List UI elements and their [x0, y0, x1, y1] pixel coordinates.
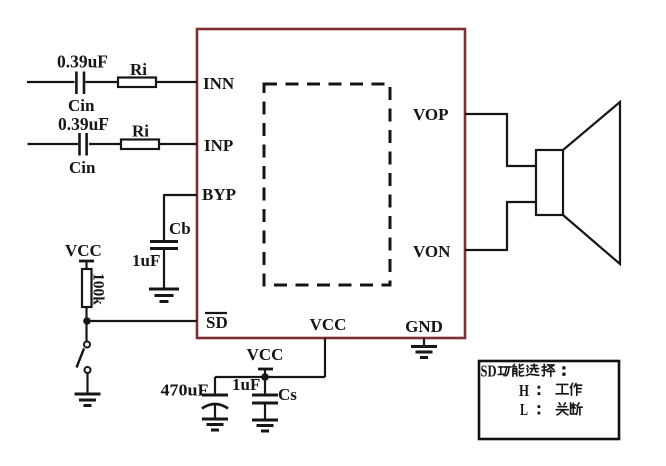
svg-text:H: H: [519, 381, 529, 400]
svg-text:VCC: VCC: [310, 315, 347, 334]
svg-text:Cin: Cin: [68, 96, 95, 115]
svg-text:BYP: BYP: [202, 185, 236, 204]
svg-text:VON: VON: [413, 242, 451, 261]
svg-text:0.39uF: 0.39uF: [57, 52, 108, 72]
svg-text:SD: SD: [481, 362, 497, 381]
svg-text:VCC: VCC: [65, 241, 102, 260]
svg-text:Ri: Ri: [130, 60, 147, 79]
svg-text:470uF: 470uF: [161, 381, 209, 400]
svg-text:INP: INP: [204, 136, 233, 155]
svg-text:VCC: VCC: [247, 345, 284, 364]
svg-text:1uF: 1uF: [232, 375, 260, 394]
svg-text:100k: 100k: [90, 273, 107, 305]
svg-text:Ri: Ri: [132, 122, 149, 141]
svg-text:Cs: Cs: [278, 385, 297, 404]
svg-text:GND: GND: [405, 317, 443, 336]
svg-text:Cin: Cin: [69, 158, 96, 177]
svg-text:INN: INN: [203, 74, 235, 93]
svg-text:VOP: VOP: [413, 105, 449, 124]
svg-text:0.39uF: 0.39uF: [58, 114, 109, 134]
svg-text:Cb: Cb: [169, 219, 191, 238]
svg-text:L: L: [520, 400, 528, 419]
svg-text:SD: SD: [206, 313, 228, 332]
svg-text:1uF: 1uF: [132, 251, 160, 270]
